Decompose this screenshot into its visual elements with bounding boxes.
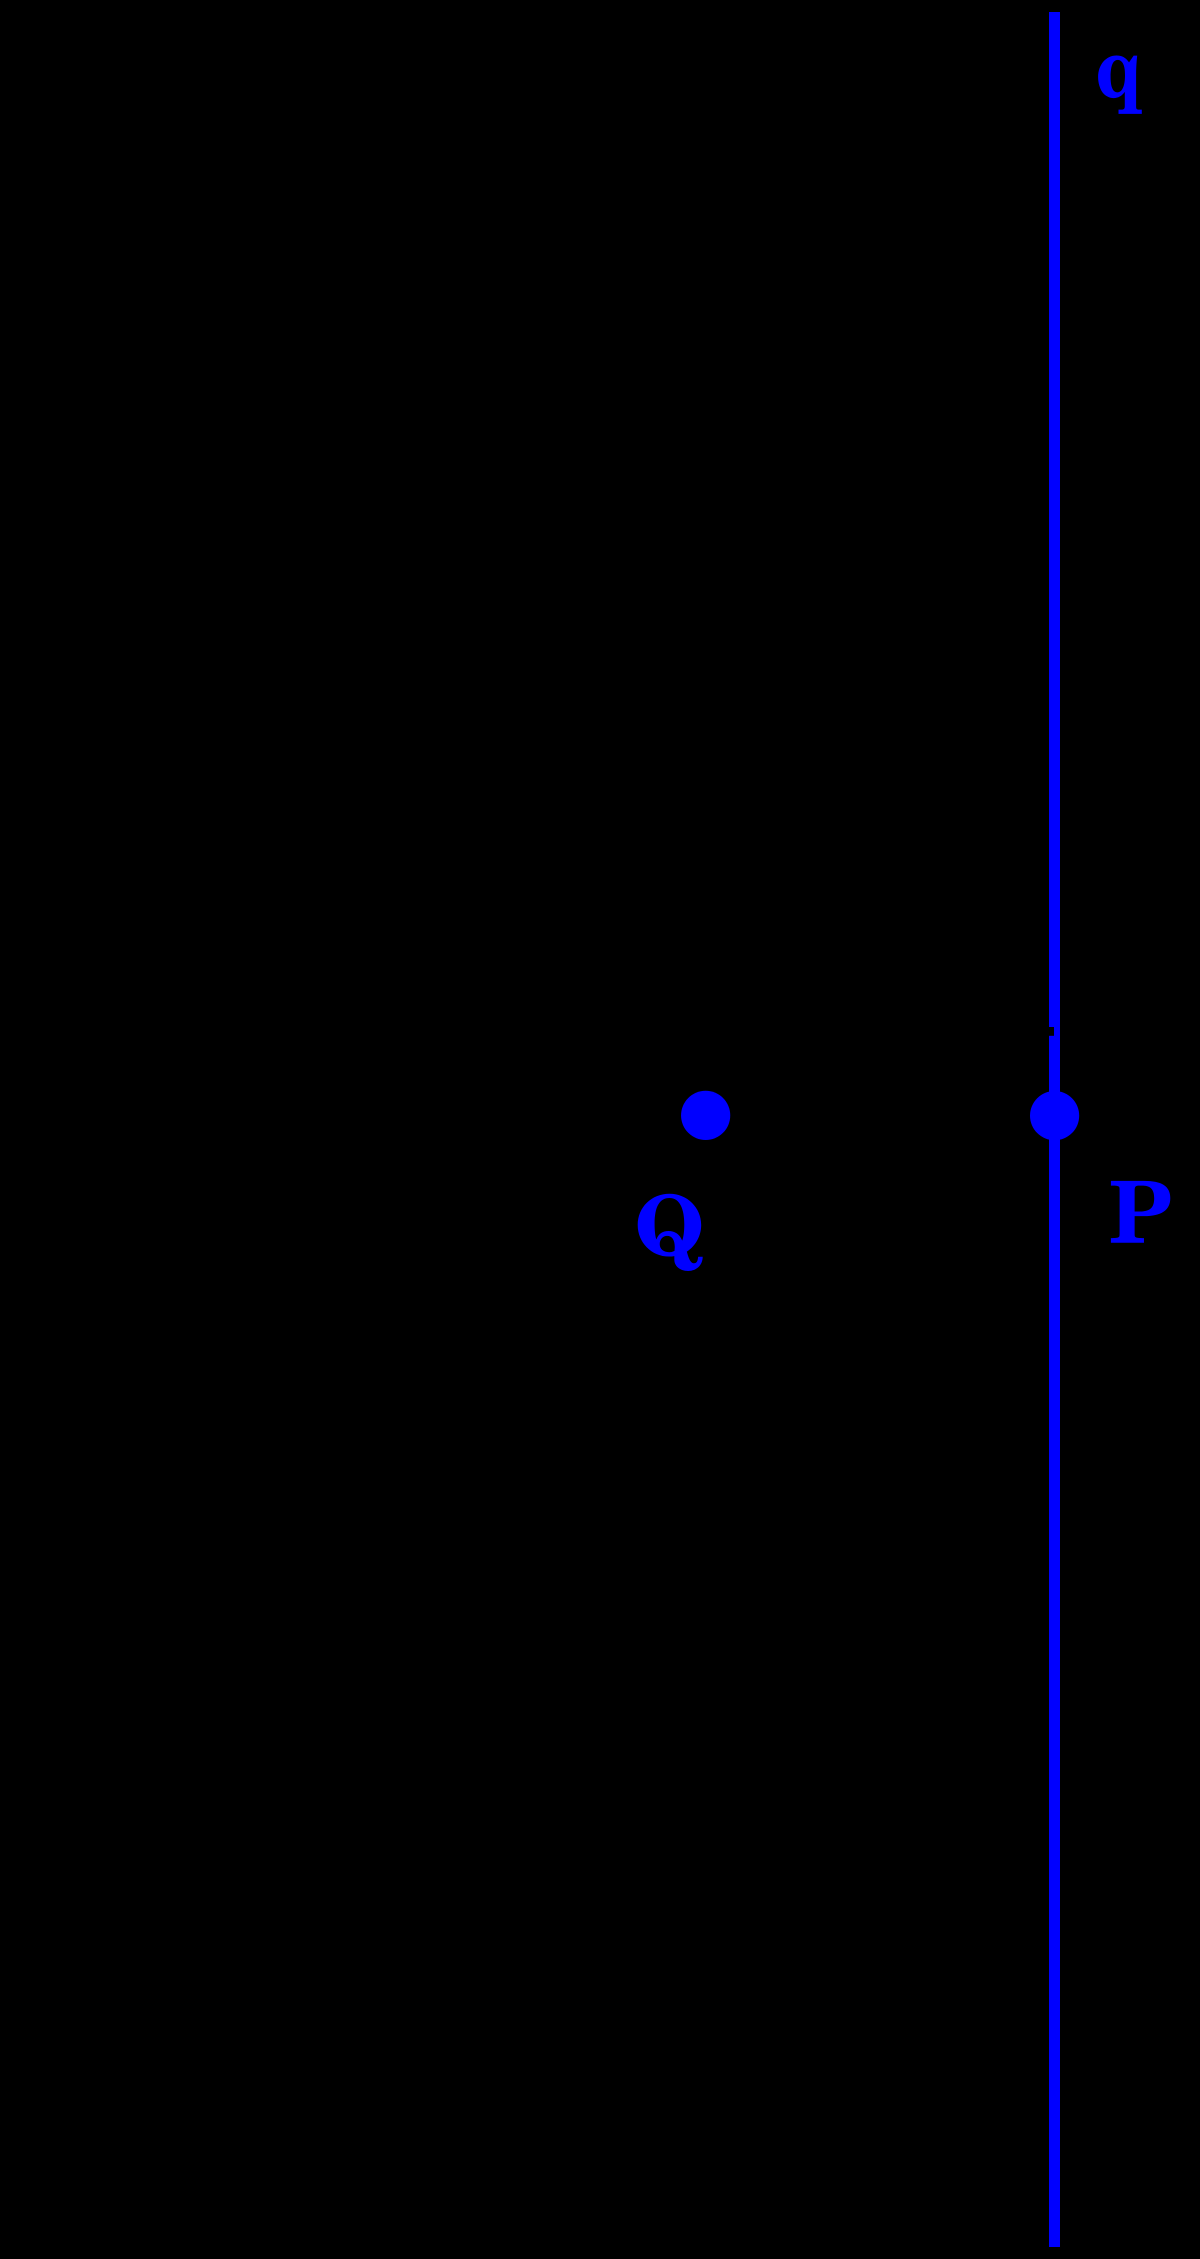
label q (1098, 56, 1142, 114)
point Q (off the line) (681, 1091, 730, 1140)
point P (on line q) (1030, 1091, 1079, 1140)
line q (vertical blue line) (1049, 12, 1060, 2247)
label P (1111, 1181, 1170, 1243)
label Q (638, 1194, 703, 1271)
notch gap on line q (1049, 1027, 1054, 1036)
